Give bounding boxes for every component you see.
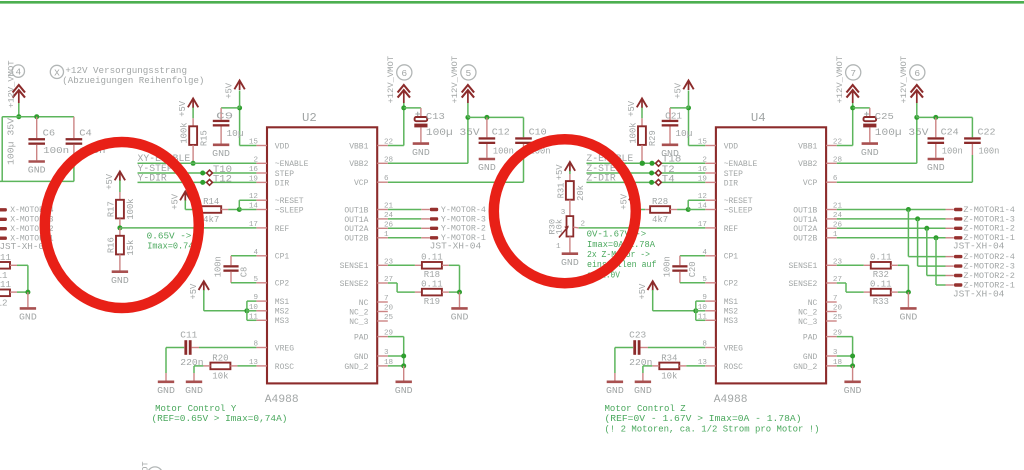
svg-text:C13: C13 <box>426 111 445 122</box>
svg-text:REF: REF <box>275 225 290 234</box>
wire GND pin3 <box>837 355 853 357</box>
svg-text:NC: NC <box>359 299 369 308</box>
svg-text:C20: C20 <box>688 261 698 277</box>
wire VBB1 to VMOT <box>388 145 404 147</box>
svg-text:NC_3: NC_3 <box>349 318 368 327</box>
+12V_VMOT supply arrow 6 <box>398 85 410 93</box>
wire SENSE1 <box>388 264 415 266</box>
svg-text:(REF=0.65V > Imax=0,74A): (REF=0.65V > Imax=0,74A) <box>152 414 288 424</box>
svg-text:7: 7 <box>833 295 838 303</box>
svg-text:VCP: VCP <box>803 179 818 188</box>
wire Y-MOTOR-1 <box>388 237 422 239</box>
svg-text:A4988: A4988 <box>714 394 748 406</box>
svg-text:OUT2B: OUT2B <box>344 235 368 244</box>
svg-text:T18: T18 <box>662 154 682 165</box>
ground for sense resistors <box>907 292 909 307</box>
+5V supply arrow C21 <box>683 81 693 90</box>
wiper wire to REF pin 17 <box>573 226 578 229</box>
svg-text:GND_2: GND_2 <box>344 363 368 372</box>
pad Z-MOTOR1-1 <box>954 236 962 239</box>
node ENABLE junction R15 <box>191 161 196 166</box>
svg-text:+5V: +5V <box>638 283 648 300</box>
svg-text:+5V: +5V <box>619 193 629 210</box>
svg-text:STEP: STEP <box>724 170 743 179</box>
wire MS1 MS2 MS3 <box>246 301 248 320</box>
svg-text:(! 2 Motoren, ca. 1/2 Strom pr: (! 2 Motoren, ca. 1/2 Strom pro Motor !) <box>605 424 820 434</box>
svg-text:GND: GND <box>451 312 469 323</box>
svg-text:10k: 10k <box>555 219 565 234</box>
svg-text:JST-XH-04: JST-XH-04 <box>953 240 1005 251</box>
wire MS1 MS2 MS3 <box>695 301 697 320</box>
svg-text:VBB1: VBB1 <box>349 142 368 151</box>
wire to cap C9 <box>221 107 240 109</box>
svg-text:16: 16 <box>698 166 708 174</box>
+5V supply arrow R31 <box>565 162 575 171</box>
svg-text:100n: 100n <box>493 146 514 157</box>
node VBB2 junction <box>914 115 919 120</box>
net label XY-ENABLE <box>138 162 257 164</box>
svg-text:0.11: 0.11 <box>870 280 892 290</box>
svg-text:Motor Control Y: Motor Control Y <box>155 404 237 414</box>
junction on DIR net <box>649 180 654 185</box>
svg-text:22: 22 <box>833 139 843 147</box>
node MS2 junction <box>244 308 249 313</box>
svg-text:C21: C21 <box>665 111 682 122</box>
svg-text:R31: R31 <box>556 183 566 199</box>
testpoint T12 <box>207 180 213 186</box>
resistor R31 20k <box>566 181 574 200</box>
capacitor C21 10u <box>662 120 679 122</box>
resistor R16 15k <box>119 228 121 236</box>
svg-text:14: 14 <box>249 203 259 211</box>
U2 pin 24 OUT1A <box>377 218 388 220</box>
svg-text:~SLEEP: ~SLEEP <box>724 206 753 215</box>
wire to bulk cap C25 <box>853 107 870 109</box>
node VDD junction <box>686 105 691 110</box>
wire VREG <box>192 347 199 349</box>
ground for C25 <box>862 142 878 145</box>
net label Y-STEP <box>138 172 257 174</box>
U2 pin 28 VBB2 <box>377 162 388 164</box>
svg-text:OT: OT <box>141 461 151 470</box>
wire GND pin3 <box>388 355 404 357</box>
wire CP2 from cap C20 <box>679 272 681 283</box>
wire GND_2 pin18 <box>837 365 853 367</box>
svg-text:GND: GND <box>19 312 37 323</box>
resistor R32 0.11 <box>871 262 891 269</box>
capacitor C20 100n <box>672 265 687 267</box>
heading annotation <box>50 65 63 78</box>
pad Z-MOTOR2-4 <box>954 255 962 258</box>
wire SENSE2 <box>837 282 846 284</box>
wires X sense to ground <box>10 264 17 266</box>
U4 pin 27 SENSE2 <box>826 282 837 284</box>
wire to ~RESET pin <box>238 200 240 209</box>
ground for R20 <box>193 366 195 373</box>
svg-text:C10: C10 <box>529 126 547 137</box>
ground for C12 <box>479 158 495 161</box>
svg-text:DIR: DIR <box>275 179 290 188</box>
svg-text:10µ: 10µ <box>227 128 244 139</box>
svg-text:1: 1 <box>384 231 389 239</box>
svg-text:+5V: +5V <box>178 100 188 117</box>
svg-text:6: 6 <box>401 68 407 79</box>
node GND junction <box>850 354 855 359</box>
U2 pin 7 NC <box>377 301 388 303</box>
wire VBB2 <box>388 162 468 164</box>
svg-text:18: 18 <box>833 359 843 367</box>
svg-text:100n: 100n <box>942 146 963 157</box>
svg-text:100µ 35V: 100µ 35V <box>875 127 929 138</box>
U4 pin 17 REF <box>705 227 716 229</box>
capacitor C12 100n <box>486 117 488 137</box>
U2 pin 16 STEP <box>256 172 267 174</box>
svg-text:11: 11 <box>249 313 259 321</box>
wire Y-MOTOR-3 <box>388 218 422 220</box>
svg-text:20: 20 <box>384 305 394 313</box>
svg-text:20: 20 <box>833 305 843 313</box>
wire REF to pin 17 <box>120 227 257 229</box>
U4 pin 11 MS3 <box>705 319 716 321</box>
svg-text:3: 3 <box>561 209 566 217</box>
resistor R33 0.11 <box>871 289 891 296</box>
svg-text:Motor Control Z: Motor Control Z <box>605 404 687 414</box>
ground for R34 <box>642 366 644 373</box>
svg-text:JST-XH-04: JST-XH-04 <box>430 240 482 251</box>
svg-text:PAD: PAD <box>354 334 369 343</box>
wire Z-MOTOR2-1 <box>935 238 937 285</box>
capacitor C9 10u <box>213 120 230 122</box>
svg-text:27: 27 <box>384 276 393 284</box>
IC U4 A4988 body <box>716 127 826 383</box>
node VBB1 junction <box>401 105 406 110</box>
+5V supply arrow R15 <box>188 99 198 108</box>
net label Y-DIR <box>138 181 257 183</box>
U4 pin 14 ~SLEEP <box>705 209 716 211</box>
wire VBB1 to VMOT <box>837 145 853 147</box>
U4 pin 12 ~RESET <box>705 199 716 201</box>
svg-text:3: 3 <box>384 349 389 357</box>
svg-text:+12V_VMOT: +12V_VMOT <box>450 56 460 104</box>
testpoint T2 <box>656 170 662 176</box>
svg-text:R33: R33 <box>873 297 889 307</box>
svg-text:ROSC: ROSC <box>275 363 294 372</box>
svg-text:C4: C4 <box>79 127 92 138</box>
svg-text:VBB2: VBB2 <box>798 160 817 169</box>
svg-text:26: 26 <box>833 221 843 229</box>
svg-text:+5V: +5V <box>189 283 199 300</box>
svg-text:GND: GND <box>861 147 879 158</box>
svg-text:12: 12 <box>0 298 8 308</box>
svg-text:20k: 20k <box>576 185 586 201</box>
svg-text:~RESET: ~RESET <box>724 197 753 206</box>
svg-text:10µ: 10µ <box>675 128 692 139</box>
node VBB1 junction <box>850 105 855 110</box>
U4 pin 26 OUT2A <box>826 227 837 229</box>
pad Z-MOTOR1-2 <box>954 227 962 230</box>
+5V supply arrow MS pins <box>648 281 658 290</box>
ground for C9 <box>213 144 229 147</box>
svg-text:ROSC: ROSC <box>724 363 743 372</box>
U2 pin 21 OUT1B <box>377 209 388 211</box>
svg-text:~SLEEP: ~SLEEP <box>275 206 304 215</box>
svg-text:R15: R15 <box>199 130 209 146</box>
svg-text:15: 15 <box>249 139 259 147</box>
wire Z-MOTOR1-4 <box>837 209 946 211</box>
+12V_VMOT supply arrow 4 top-left <box>12 65 24 77</box>
svg-text:CP2: CP2 <box>275 280 290 289</box>
svg-text:+5V: +5V <box>674 82 684 99</box>
svg-text:GND: GND <box>185 385 203 396</box>
svg-text:10k: 10k <box>212 372 228 382</box>
svg-text:MS2: MS2 <box>724 308 739 317</box>
svg-text:27: 27 <box>833 276 842 284</box>
wire from VMOT arrow <box>18 103 20 117</box>
wire VMOT rail top-left <box>2 116 74 118</box>
pad Z-MOTOR2-3 <box>954 264 962 267</box>
U4 pin 9 MS1 <box>705 300 716 302</box>
pad X-MOTOR-1 <box>0 237 7 240</box>
U4 pin 28 VBB2 <box>826 162 837 164</box>
svg-text:4k7: 4k7 <box>203 215 219 225</box>
svg-text:GND: GND <box>844 385 862 396</box>
U4 pin 29 PAD <box>826 336 837 338</box>
pad X-MOTOR-4 <box>0 208 7 211</box>
resistor R14 4k7 <box>201 206 221 213</box>
svg-text:28: 28 <box>833 156 843 164</box>
svg-text:JST-XH-04: JST-XH-04 <box>953 288 1005 299</box>
svg-text:GND: GND <box>478 162 496 173</box>
U4 pin 2 ~ENABLE <box>705 162 716 164</box>
U4 pin 22 VBB1 <box>826 145 837 147</box>
svg-text:21: 21 <box>384 203 394 211</box>
svg-text:OUT1B: OUT1B <box>344 206 368 215</box>
svg-text:15k: 15k <box>126 240 136 256</box>
svg-text:100n: 100n <box>978 146 999 157</box>
svg-text:VDD: VDD <box>275 142 290 151</box>
svg-text:11: 11 <box>698 313 708 321</box>
svg-text:100n: 100n <box>214 256 224 277</box>
svg-text:R28: R28 <box>652 197 668 207</box>
junction Z-MOTOR2-1 tap <box>934 235 939 240</box>
svg-text:2: 2 <box>253 156 258 164</box>
svg-text:GND: GND <box>634 385 652 396</box>
pad Z-MOTOR2-1 <box>954 283 962 286</box>
svg-text:9: 9 <box>702 294 707 302</box>
ground for C6 <box>29 160 45 163</box>
U4 pin 18 GND_2 <box>826 365 837 367</box>
svg-text:(Abzueigungen Reihenfolge): (Abzueigungen Reihenfolge) <box>62 75 204 86</box>
node GND junction <box>401 354 406 359</box>
wire CP2 from cap C8 <box>230 272 232 283</box>
svg-text:CP1: CP1 <box>724 253 739 262</box>
svg-text:SENSE2: SENSE2 <box>788 280 817 289</box>
wire to bulk cap C13 <box>404 107 421 109</box>
junction Z-MOTOR2-3 tap <box>915 216 920 221</box>
svg-text:25: 25 <box>384 314 394 322</box>
capacitor C13 100u polarized <box>415 112 420 117</box>
svg-text:C11: C11 <box>180 329 197 340</box>
svg-text:T4: T4 <box>662 173 675 184</box>
svg-text:GND: GND <box>111 275 129 286</box>
wire GND_2 pin18 <box>388 365 404 367</box>
+5V supply arrow R29 <box>637 99 647 108</box>
svg-text:13: 13 <box>698 359 708 367</box>
svg-text:REF: REF <box>724 225 739 234</box>
U4 pin 5 CP2 <box>705 282 716 284</box>
svg-text:24: 24 <box>833 212 843 220</box>
svg-text:MS2: MS2 <box>275 308 290 317</box>
U2 pin 4 CP1 <box>256 255 267 257</box>
svg-text:19: 19 <box>249 175 259 183</box>
svg-text:PAD: PAD <box>803 334 818 343</box>
svg-text:12: 12 <box>249 193 259 201</box>
U2 pin 6 VCP <box>377 181 388 183</box>
wire Z-MOTOR1-1 <box>837 237 946 239</box>
U2 pin 17 REF <box>256 227 267 229</box>
svg-text:GND: GND <box>927 162 945 173</box>
junction on STEP net <box>200 171 205 176</box>
svg-text:4k7: 4k7 <box>652 215 668 225</box>
wire to ~SLEEP pin <box>688 209 705 211</box>
capacitor C8 100n <box>223 265 238 267</box>
svg-text:100k: 100k <box>180 122 190 143</box>
U2 pin 25 NC_3 <box>377 320 388 322</box>
node sense junction <box>457 290 462 295</box>
svg-text:A4988: A4988 <box>265 394 299 406</box>
+5V supply arrow MS pins <box>199 281 209 290</box>
U2 pin 10 MS2 <box>256 310 267 312</box>
svg-text:0.11: 0.11 <box>421 253 443 263</box>
svg-text:GND: GND <box>354 353 369 362</box>
U2 pin 19 DIR <box>256 181 267 183</box>
U2 pin 8 VREG <box>256 347 267 349</box>
svg-text:0.11: 0.11 <box>421 280 443 290</box>
capacitor C6 100n <box>36 117 38 138</box>
ground for IC <box>852 366 854 381</box>
svg-text:Z-DIR: Z-DIR <box>586 172 615 183</box>
U2 pin 11 MS3 <box>256 319 267 321</box>
capacitor C4 100n <box>73 117 75 138</box>
svg-text:25: 25 <box>833 314 843 322</box>
wire PAD pin29 <box>388 336 404 338</box>
svg-text:OUT2B: OUT2B <box>793 235 817 244</box>
capacitor C11 220n <box>166 347 184 349</box>
svg-text:4: 4 <box>702 249 707 257</box>
svg-text:SENSE1: SENSE1 <box>788 262 817 271</box>
U4 pin 24 OUT1A <box>826 218 837 220</box>
IC U2 A4988 body <box>267 127 377 383</box>
U4 pin 20 NC_2 <box>826 311 837 313</box>
svg-text:GND: GND <box>900 312 918 323</box>
resistor R20 10k <box>210 363 230 370</box>
U2 pin 3 GND <box>377 355 388 357</box>
wire Z-MOTOR2-2 <box>926 228 928 275</box>
svg-text:R29: R29 <box>648 130 658 146</box>
resistor R29 100k <box>638 126 646 145</box>
U2 pin 29 PAD <box>377 336 388 338</box>
U2 pin 5 CP2 <box>256 282 267 284</box>
svg-text:Y-DIR: Y-DIR <box>138 172 167 183</box>
wire Z-MOTOR2-3 <box>917 219 919 266</box>
svg-text:MS3: MS3 <box>275 317 290 326</box>
svg-text:VBB2: VBB2 <box>349 160 368 169</box>
pad Z-MOTOR1-4 <box>954 208 962 211</box>
wire VREG <box>641 347 648 349</box>
wire to ~RESET pin <box>687 200 689 209</box>
wire to ~SLEEP pin <box>239 209 256 211</box>
+5V supply arrow R17 <box>115 172 125 181</box>
svg-text:18: 18 <box>384 359 394 367</box>
U2 pin 15 VDD <box>256 145 267 147</box>
U2 pin 13 ROSC <box>256 365 267 367</box>
svg-text:CP2: CP2 <box>724 280 739 289</box>
svg-text:VREG: VREG <box>724 344 743 353</box>
node VMOT junction <box>16 114 21 119</box>
svg-text:8: 8 <box>253 341 258 349</box>
svg-text:VREG: VREG <box>275 344 294 353</box>
resistor R34 10k <box>659 363 679 370</box>
wire VCP <box>837 181 973 183</box>
+12V_VMOT supply arrow 5 <box>462 85 474 93</box>
svg-text:100µ 35V: 100µ 35V <box>426 127 480 138</box>
+12V_VMOT supply arrow 7 <box>847 85 859 93</box>
svg-text:+5V: +5V <box>225 82 235 99</box>
svg-text:7: 7 <box>384 295 389 303</box>
U2 pin 2 ~ENABLE <box>256 162 267 164</box>
+12V_VMOT supply arrow 6 <box>911 85 923 93</box>
wire to cap C21 <box>670 107 689 109</box>
ground for C23 <box>614 348 616 374</box>
svg-text:C24: C24 <box>941 126 960 137</box>
wire VBB2 rail <box>468 116 524 118</box>
U2 pin 9 MS1 <box>256 300 267 302</box>
svg-text:CP1: CP1 <box>275 253 290 262</box>
svg-text:100n: 100n <box>662 256 672 277</box>
svg-text:13: 13 <box>249 359 259 367</box>
svg-text:GND: GND <box>395 385 413 396</box>
+5V supply arrow R14 <box>180 192 190 201</box>
svg-text:3: 3 <box>833 349 838 357</box>
wire CP1 to cap C20 <box>680 255 705 257</box>
svg-text:0.11: 0.11 <box>870 253 892 263</box>
U4 pin 4 CP1 <box>705 255 716 257</box>
svg-text:+5V: +5V <box>105 173 115 190</box>
svg-text:C25: C25 <box>875 111 894 122</box>
svg-text:VBB1: VBB1 <box>798 142 817 151</box>
ground for C24 <box>928 158 944 161</box>
resistor R28 4k7 <box>650 206 670 213</box>
wire PAD pin29 <box>837 336 853 338</box>
svg-text:29: 29 <box>384 330 394 338</box>
wire VBB2 rail <box>917 116 973 118</box>
svg-text:SENSE1: SENSE1 <box>340 262 369 271</box>
svg-text:OUT2A: OUT2A <box>344 225 368 234</box>
svg-text:+5V: +5V <box>627 100 637 117</box>
svg-text:R14: R14 <box>203 197 219 207</box>
svg-text:1: 1 <box>556 243 561 251</box>
svg-text:OUT2A: OUT2A <box>793 225 817 234</box>
svg-text:10k: 10k <box>661 372 677 382</box>
net label Z-STEP <box>586 172 705 174</box>
U4 pin 23 SENSE1 <box>826 264 837 266</box>
svg-text:21: 21 <box>833 203 843 211</box>
U2 pin 22 VBB1 <box>377 145 388 147</box>
svg-text:6: 6 <box>833 175 838 183</box>
svg-text:24: 24 <box>384 212 394 220</box>
U2 pin 1 OUT2B <box>377 237 388 239</box>
svg-text:12: 12 <box>698 193 708 201</box>
